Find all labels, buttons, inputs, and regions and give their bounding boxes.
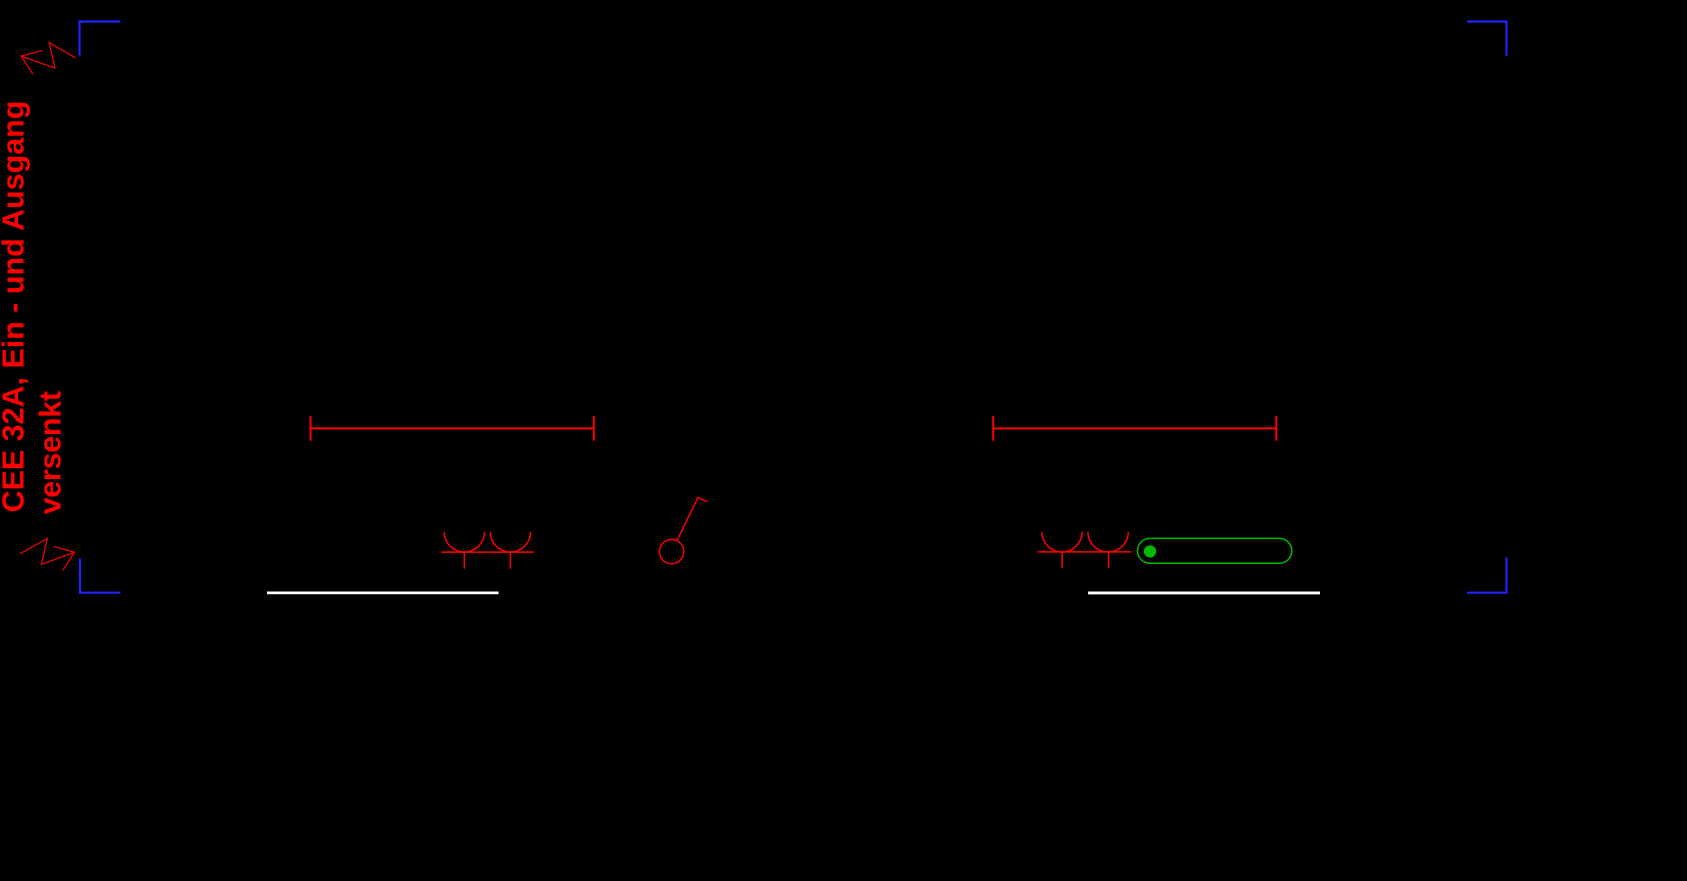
crop mark corner bottom-left bbox=[80, 559, 120, 593]
double socket outlet right bbox=[1038, 532, 1131, 568]
svg-text:CEE 32A, Ein - und Ausgang: CEE 32A, Ein - und Ausgang bbox=[0, 101, 30, 513]
crop mark corner bottom-right bbox=[1467, 558, 1507, 593]
switch S (Ausschalter) bbox=[659, 497, 707, 564]
crop mark corner top-left bbox=[80, 22, 121, 56]
label text CEE 32A, Ein - und Ausgang bbox=[0, 101, 30, 513]
fluorescent luminaire (Langfeldleuchte) bbox=[1138, 538, 1292, 563]
wall line left (white) bbox=[267, 592, 499, 595]
svg-text:versenkt: versenkt bbox=[34, 391, 68, 514]
label text versenkt bbox=[34, 391, 68, 514]
luminaire dot bbox=[1144, 545, 1156, 557]
dimension line right bbox=[993, 416, 1276, 441]
crop mark corner top-right bbox=[1467, 22, 1506, 56]
feed arrow top-left (Blitzpfeil) bbox=[21, 43, 75, 75]
dimension line left bbox=[311, 416, 594, 441]
double socket outlet left bbox=[441, 532, 534, 569]
feed arrow bottom-left (Blitzpfeil) bbox=[20, 538, 74, 570]
wall line right (white) bbox=[1088, 592, 1320, 595]
